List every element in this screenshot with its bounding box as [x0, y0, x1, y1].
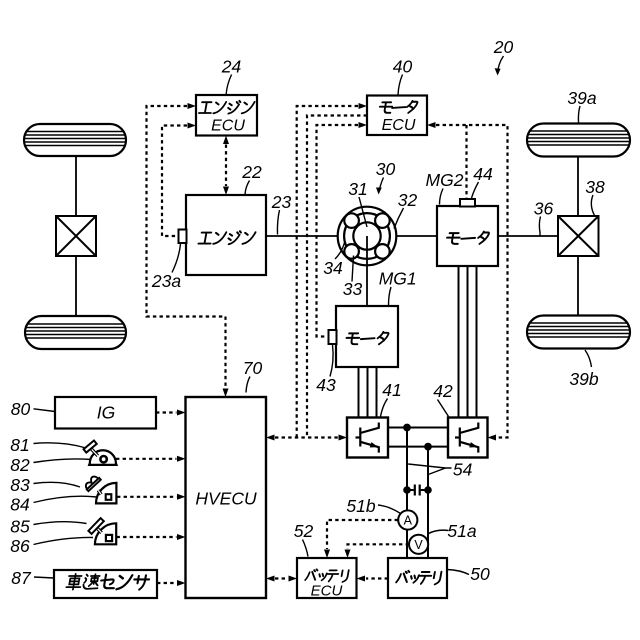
svg-text:ECU: ECU — [211, 118, 245, 135]
leader 39b — [585, 350, 592, 367]
svg-text:82: 82 — [10, 455, 30, 475]
port 23a — [179, 230, 187, 244]
inverter 42 — [448, 418, 488, 458]
wire motorECU right to inverter42 dashed — [436, 125, 508, 438]
bus drop wires to battery — [407, 428, 428, 559]
leader 38 — [591, 195, 594, 216]
leader 51b — [378, 505, 401, 514]
wire HVECU-inverter41 dashed bus — [275, 436, 338, 438]
differential left — [56, 216, 96, 256]
wire IG to HVECU dashed — [156, 411, 177, 413]
leader 22 — [245, 181, 250, 195]
svg-text:41: 41 — [382, 380, 401, 400]
svg-text:38: 38 — [585, 177, 605, 197]
arrowhead into HVECU from sensor 85/86 — [177, 534, 186, 540]
leader 70 — [246, 377, 250, 393]
svg-text:20: 20 — [493, 37, 514, 57]
speed sensor 87 — [54, 570, 157, 598]
svg-text:50: 50 — [470, 564, 490, 584]
arrowhead into HVECU right (bus line) — [266, 435, 275, 441]
svg-text:ECU: ECU — [382, 117, 416, 134]
motor MG2 — [437, 206, 498, 266]
arrowhead into battery ECU left — [289, 576, 298, 582]
leader 50 — [447, 570, 469, 575]
leader 86 — [34, 537, 94, 544]
engine ECU 24 — [196, 95, 257, 136]
leader lines — [34, 56, 595, 578]
arrowhead into HVECU from IG — [177, 410, 186, 416]
motor MG1 — [336, 306, 398, 367]
svg-text:HVECU: HVECU — [195, 489, 257, 509]
svg-text:23: 23 — [271, 192, 292, 212]
IG 80 — [55, 397, 156, 429]
svg-text:A: A — [404, 514, 413, 528]
differential right 38 — [558, 216, 599, 256]
engine 22 — [186, 195, 266, 275]
leader 33 — [352, 256, 354, 282]
wheel rear-right 39b — [527, 316, 630, 349]
leader 44 — [472, 182, 479, 198]
wire 43 to motorECU dashed — [317, 125, 359, 337]
wheel front-right 39a — [527, 124, 630, 157]
svg-text:51a: 51a — [447, 521, 476, 541]
arrowhead into motor ECU left (outer line) — [359, 103, 368, 109]
arrowhead into battery ECU right (from battery) — [357, 576, 366, 582]
wire engine to gear — [266, 235, 338, 237]
leader 34 — [335, 243, 345, 260]
leader 43 — [330, 345, 333, 377]
wire motorECU left mid dashed — [307, 116, 367, 438]
wheel rear-left — [25, 316, 126, 349]
svg-text:70: 70 — [243, 358, 263, 378]
battery 50 — [388, 558, 447, 598]
leader 84 — [34, 496, 97, 502]
wire 23a to engineECU dashed — [162, 126, 187, 237]
svg-text:87: 87 — [11, 568, 32, 588]
arrowhead into engine ECU (from HVECU line) — [188, 103, 197, 109]
arrowhead into HVECU from sensor 83/84 — [177, 494, 186, 500]
leader 85 — [34, 522, 87, 525]
svg-text:39a: 39a — [567, 88, 596, 108]
leader 36 — [539, 217, 540, 237]
port 43 — [329, 330, 337, 344]
svg-text:MG1: MG1 — [379, 269, 417, 289]
sensor icon brake pedal 85/86 — [88, 518, 116, 544]
leader 80 — [34, 409, 56, 412]
ammeter 51b — [398, 510, 417, 529]
svg-text:83: 83 — [10, 475, 30, 495]
svg-text:36: 36 — [534, 199, 554, 219]
svg-text:52: 52 — [294, 521, 314, 541]
HVECU 70 — [186, 397, 267, 598]
arrowhead down into battery ECU top (from ammeter) — [324, 550, 330, 559]
leader 40 — [398, 75, 403, 96]
svg-text:34: 34 — [323, 258, 343, 278]
wire battery to batteryECU dashed — [366, 577, 388, 579]
arrowhead 20 — [495, 68, 501, 75]
leader 54 — [408, 464, 451, 475]
svg-text:51b: 51b — [346, 496, 375, 516]
leader 32 — [394, 208, 404, 229]
port 44 — [460, 199, 475, 207]
arrowhead down into HVECU top — [223, 389, 229, 398]
leader 24 — [226, 75, 232, 95]
leader 23 — [277, 210, 279, 235]
wire HVECU-batteryECU dashed — [275, 577, 288, 579]
axle left — [75, 156, 77, 316]
arrowhead up into engine ECU bottom — [223, 136, 229, 145]
svg-text:80: 80 — [11, 399, 31, 419]
wire gear to MG1 — [366, 236, 368, 306]
svg-text:22: 22 — [241, 162, 262, 182]
wire speed sensor to HVECU dashed — [157, 582, 177, 584]
arrowhead into inverter 42 right — [488, 435, 497, 441]
svg-text:24: 24 — [221, 57, 242, 77]
wire sensor85 to HVECU dashed — [117, 536, 177, 538]
arrowhead into HVECU from speed sensor — [177, 580, 186, 586]
wire sensor83 to HVECU dashed — [117, 496, 177, 498]
svg-text:V: V — [414, 538, 423, 552]
planet pinions — [344, 213, 389, 258]
leader 41 — [381, 399, 388, 417]
wire ammeter to batteryECU dashed — [327, 520, 398, 549]
leader 81 — [34, 443, 87, 448]
svg-text:30: 30 — [376, 159, 396, 179]
arrowhead 30 — [376, 188, 382, 195]
svg-text:86: 86 — [10, 536, 30, 556]
DC bus wires between 41 and 42 — [388, 428, 448, 447]
arrowhead into engine ECU (from 23a line) — [188, 123, 197, 129]
arrowhead into HVECU from sensor 81/82 — [177, 456, 186, 462]
sensor icon shift lever 81/82 — [84, 441, 117, 465]
arrowhead into motor ECU left (from 43) — [359, 122, 368, 128]
capacitor 54 — [407, 485, 428, 496]
svg-text:39b: 39b — [569, 369, 598, 389]
svg-text:43: 43 — [316, 375, 336, 395]
leader 82 — [34, 459, 92, 463]
svg-text:IG: IG — [97, 403, 115, 423]
leader 30 arrow — [379, 178, 384, 193]
leader 39a — [578, 106, 580, 123]
svg-text:44: 44 — [473, 164, 493, 184]
svg-text:MG2: MG2 — [426, 170, 464, 190]
wire voltmeter to batteryECU dashed — [348, 544, 410, 549]
wire motorECU left outer dashed — [297, 106, 358, 438]
arrowhead into motor ECU right (from 44/42) — [427, 122, 436, 128]
axle right — [577, 157, 579, 316]
wheel front-left — [24, 124, 126, 156]
battery ECU 52 — [297, 558, 357, 600]
voltmeter 51a — [409, 535, 428, 554]
sensor icon accel pedal 83/84 — [83, 474, 116, 503]
wire engineECU-engine dashed — [225, 145, 227, 187]
leader 83 — [34, 482, 81, 487]
leader 42 — [438, 400, 449, 417]
wire gear to MG2 — [396, 235, 437, 237]
svg-text:84: 84 — [10, 495, 30, 515]
leader 51a — [429, 530, 449, 533]
leader MG2 — [440, 189, 444, 205]
leader MG1 — [389, 287, 392, 305]
leader 87 — [34, 577, 54, 578]
svg-text:40: 40 — [393, 57, 413, 77]
leader 52 — [303, 540, 309, 557]
3-phase wires MG2 to inverter 42 — [459, 266, 477, 418]
svg-text:85: 85 — [10, 517, 30, 537]
arrowhead down into battery ECU top (from voltmeter) — [345, 550, 351, 559]
wire engineECU-HVECU dashed — [147, 106, 226, 388]
leader 31 — [359, 197, 367, 227]
arrowhead down into engine top — [223, 187, 229, 196]
svg-text:33: 33 — [343, 279, 363, 299]
junction dots — [403, 424, 411, 432]
wire sensor81 to HVECU dashed — [116, 458, 177, 460]
inverter 41 — [347, 418, 388, 458]
svg-text:ECU: ECU — [311, 583, 343, 600]
svg-text:54: 54 — [453, 460, 473, 480]
motor ECU 40 — [367, 96, 427, 136]
3-phase wires MG1 to inverter 41 — [359, 367, 377, 418]
svg-text:32: 32 — [398, 190, 418, 210]
arrowhead into inverter 41 left — [339, 435, 348, 441]
wire 36 MG2 to diff — [498, 235, 558, 237]
leader 23a — [172, 244, 181, 273]
arrowhead into HVECU right (battery ECU line) — [266, 576, 275, 582]
wire 44 to motorECU dashed — [465, 125, 467, 198]
svg-text:42: 42 — [433, 381, 453, 401]
svg-text:81: 81 — [10, 435, 29, 455]
leader 20 arrow — [498, 56, 504, 74]
svg-text:23a: 23a — [151, 271, 181, 291]
planetary gear 30 — [338, 207, 397, 266]
svg-text:31: 31 — [348, 179, 367, 199]
